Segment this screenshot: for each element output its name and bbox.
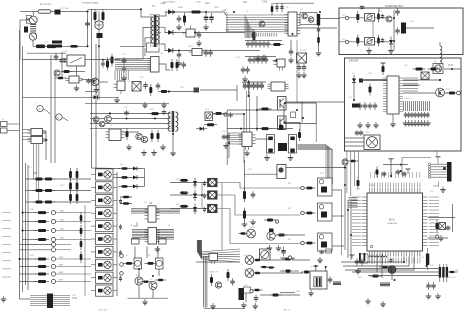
wire into PC2 (339, 41, 365, 43)
capacitor C38 (241, 66, 246, 74)
ground (373, 122, 379, 128)
connector pin (301, 211, 304, 214)
capacitor C86 (203, 207, 206, 213)
label LED4 (250, 227, 256, 229)
sensor U12 (209, 254, 218, 265)
power tap (377, 8, 382, 12)
svg-text:KEY: KEY (59, 280, 64, 282)
wire U13 to U14 b (249, 91, 251, 132)
capacitor C79 (426, 282, 431, 290)
label U4 (160, 53, 163, 55)
label KEY3 (59, 280, 64, 282)
label Q8 (136, 275, 140, 277)
label C10 (205, 2, 210, 5)
wire (43, 131, 47, 133)
junction (350, 234, 352, 236)
wire into U1 (23, 59, 63, 61)
ground (357, 122, 363, 128)
choke L1b (44, 45, 59, 49)
wire SDA (428, 217, 455, 219)
ground (114, 97, 120, 103)
wire PC2 out (375, 41, 390, 43)
wire (292, 259, 310, 261)
label OUT2 (446, 89, 452, 91)
U16 top pin labels outer (371, 172, 420, 178)
wire (315, 266, 317, 271)
resistor R20b (377, 35, 380, 47)
wire row (20, 281, 38, 283)
ribbon bus into U8 right (156, 209, 180, 214)
wire feed down (243, 114, 245, 163)
label U10 (368, 73, 373, 75)
wire row (120, 196, 131, 198)
junction (98, 45, 100, 47)
capacitor C34 (264, 56, 269, 64)
ground (223, 143, 229, 149)
ground (403, 120, 409, 126)
wire vertical inside box1 (393, 10, 395, 50)
connector pin P7 (51, 257, 55, 261)
resistor R1 (68, 45, 81, 48)
resistor R65 (304, 187, 316, 190)
resistor R77 (260, 266, 268, 268)
svg-text:KEY: KEY (59, 257, 64, 259)
resistor R62 (259, 108, 272, 111)
wire bus U5 (226, 19, 288, 21)
capacitor C27 (258, 40, 263, 48)
junction (87, 45, 89, 47)
motor M1 (29, 33, 36, 40)
ground (210, 303, 216, 309)
wire out Q11 (286, 101, 345, 103)
wire (439, 64, 441, 72)
wire (376, 254, 378, 272)
ground (316, 50, 322, 56)
wire module down (315, 124, 317, 143)
wire (280, 270, 284, 272)
resistor R88 (447, 271, 458, 273)
diode D9 (193, 178, 197, 189)
connector pin (301, 186, 304, 189)
resistor R45 (35, 265, 49, 268)
resistor R42 (35, 229, 49, 232)
capacitor CX2 (85, 20, 90, 28)
wire row out (56, 266, 91, 268)
resistor R95 (126, 128, 129, 140)
resistor R54 (180, 191, 189, 194)
label KEY2 (59, 272, 64, 274)
label LED6 (244, 269, 250, 271)
resistor R59 (155, 279, 166, 281)
label KEY1 (59, 265, 64, 267)
diode D2 (165, 30, 177, 35)
capacitor C5 (101, 60, 105, 68)
relay K2 (156, 258, 164, 269)
transistor Q21 (93, 117, 99, 123)
wire bus sig2 (96, 44, 120, 177)
svg-text:REMOTE: REMOTE (210, 272, 219, 274)
ground (365, 122, 371, 128)
svg-text:C10: C10 (205, 2, 210, 5)
capacitor C90 (86, 78, 91, 84)
label D201 (163, 2, 176, 4)
wire (325, 267, 327, 271)
capacitor C1 bulk (97, 33, 103, 38)
wire row (170, 208, 208, 210)
resistor R38 (42, 201, 55, 204)
capacitor C91 (91, 78, 96, 84)
junction (194, 31, 196, 33)
capacitor C40c (381, 38, 384, 44)
svg-text:DRIVER: DRIVER (349, 60, 359, 63)
ground (151, 150, 157, 156)
junction (154, 118, 156, 120)
svg-text:F1 3.15A: F1 3.15A (60, 7, 69, 10)
wire sec3 (161, 44, 167, 51)
driver cell Q33 (91, 208, 117, 219)
capacitor C57 (230, 278, 235, 286)
wire bus drop (249, 25, 251, 38)
label PC4 (205, 109, 210, 111)
ground (170, 150, 176, 156)
wire T2 in low (90, 123, 171, 125)
junction (109, 113, 111, 115)
resistor R68 (243, 188, 246, 202)
component hatch (244, 83, 263, 89)
U16 right pin labels (429, 197, 439, 246)
diode D4 (389, 37, 393, 48)
junction (248, 81, 250, 83)
capacitor C39 (245, 66, 250, 74)
wire link (301, 102, 303, 123)
wire row (23, 230, 38, 232)
resistor network RN2 (380, 283, 390, 286)
label AC input (40, 3, 52, 6)
wire lamp out (217, 195, 300, 215)
connector pin (250, 290, 253, 293)
label CN4 (410, 21, 415, 23)
junction (347, 209, 349, 211)
op-amp U14 (239, 132, 256, 150)
transformer T1 (149, 15, 161, 48)
junction (344, 184, 346, 186)
capacitor C45 (368, 102, 373, 110)
ground (425, 120, 431, 126)
wire vcc jog (402, 158, 431, 175)
svg-text:KEY: KEY (28, 167, 33, 169)
resistor R4 (106, 58, 109, 71)
label out (448, 65, 453, 67)
junction (315, 265, 317, 267)
wire lamp bus (221, 183, 223, 251)
label P1 (246, 11, 249, 13)
connector pin P12 (120, 263, 124, 267)
capacitor CC4 (119, 224, 122, 230)
wire row out (56, 212, 91, 214)
lamp LED2 (208, 191, 218, 199)
wire (43, 139, 49, 141)
resistor R97 (157, 130, 160, 142)
cable fan (198, 249, 240, 262)
wire bus drop (245, 17, 247, 38)
wire (134, 247, 136, 259)
wire (174, 31, 186, 33)
resistor R41 (35, 220, 49, 223)
wire (343, 257, 409, 267)
wire (200, 89, 237, 91)
ground (426, 293, 432, 299)
label TP (455, 270, 460, 272)
label TP (446, 277, 449, 279)
resistor R34 (33, 201, 46, 204)
lamp LED1 (208, 178, 218, 186)
junction (178, 50, 180, 52)
resistor R71b (76, 180, 79, 193)
wire bus U5 (226, 28, 288, 30)
ground (161, 102, 167, 108)
ground (264, 155, 270, 161)
ground (244, 150, 250, 156)
resistor R21 (382, 63, 385, 75)
resistor R33 (33, 189, 46, 192)
ground (317, 257, 323, 263)
label C210 (196, 2, 202, 4)
lamp LED3 (208, 204, 218, 212)
transistor Q13 (280, 99, 281, 101)
driver cell Q32 (91, 195, 117, 206)
wire to relay box 2 (297, 27, 337, 29)
capacitor C24 (246, 40, 251, 48)
driver cell Q36 (91, 246, 117, 257)
op-amp U9B (28, 137, 47, 144)
wire PC4 out (213, 113, 245, 115)
lamp LED6 (245, 269, 254, 278)
transistor cell Q6 (433, 64, 443, 74)
choke gap (52, 43, 62, 45)
wire (140, 8, 142, 10)
ground (196, 40, 202, 46)
connector CN11 (244, 287, 251, 293)
label C2x (252, 38, 256, 40)
wire U10 to Q7 (403, 92, 436, 94)
ground (288, 155, 294, 161)
relay K3 (267, 135, 275, 154)
ribbon bus into U8 left (131, 209, 148, 214)
capacitor C58 (243, 82, 248, 90)
ribbon hatch (349, 198, 358, 208)
cable bundle (197, 240, 201, 259)
wire bus x51 (50, 55, 52, 163)
wire bus drop (246, 20, 248, 38)
oscillator Y2 (278, 143, 287, 151)
resistor R49 (119, 176, 131, 179)
label J2 (2, 119, 5, 121)
U16 top pin labels (369, 183, 420, 188)
resistor R46 (35, 273, 49, 276)
transistor pair frame (300, 13, 317, 25)
svg-text:POWER BOARD: POWER BOARD (82, 2, 99, 5)
resistor R47 (35, 280, 49, 283)
label K1 (126, 255, 129, 257)
svg-text:C: C (58, 115, 60, 119)
wire lamp out (217, 183, 300, 189)
label F1 3.15A (60, 7, 69, 10)
capacitor C31 (252, 56, 257, 64)
opto-coupler PC2 (365, 38, 375, 46)
wire vertical node (87, 13, 89, 46)
note label A (37, 105, 50, 114)
label VDD (370, 185, 375, 187)
resistor R63 (259, 127, 272, 130)
wire row (120, 203, 131, 205)
resistor R19 (356, 11, 359, 23)
label gnd (98, 310, 108, 312)
svg-text:IC5: IC5 (243, 0, 248, 4)
capacitor C52 (413, 112, 416, 118)
ground (141, 150, 147, 156)
wire (262, 259, 285, 261)
wire drive 2 (227, 128, 293, 130)
wire (139, 168, 145, 170)
transistor Q1 (259, 21, 265, 27)
capacitor C67 (328, 276, 333, 284)
resistor R72a (69, 191, 72, 204)
ground (242, 76, 248, 82)
capacitor C21 (275, 5, 278, 10)
U16 top pins (369, 188, 420, 193)
wire (139, 185, 145, 187)
junction (22, 230, 24, 232)
regulator U19 (274, 59, 286, 71)
wire bridge bottom (98, 29, 100, 34)
junction (426, 265, 428, 267)
crystal X2 (421, 72, 429, 79)
resistor R16 (317, 34, 320, 46)
label power board (82, 2, 99, 5)
label SW4 (60, 238, 64, 240)
connector CN2a (317, 14, 320, 26)
wire (70, 71, 85, 73)
wire bus drop (248, 22, 250, 38)
label R215 (178, 7, 184, 9)
label CN3 (236, 57, 241, 59)
connector CN5 (30, 294, 78, 309)
wire N rail (62, 45, 88, 47)
label DRV (320, 173, 325, 175)
wire bus U5 (226, 21, 288, 23)
wire aux rail (85, 102, 169, 104)
label R23 (404, 65, 409, 67)
resistor R84 (376, 167, 379, 178)
capacitor C15 (177, 51, 182, 59)
resistor R97d (80, 251, 83, 263)
capacitor C44 (363, 102, 368, 110)
diode D15 (196, 127, 207, 131)
wire (403, 79, 440, 81)
transistor Q23 (136, 133, 142, 139)
label C43 (348, 97, 353, 99)
wire row (23, 212, 38, 214)
connector CN1 (26, 15, 31, 23)
resistor R94 (204, 123, 217, 126)
connector pin (436, 235, 439, 238)
label C76 (430, 265, 435, 267)
wire bus drop (252, 32, 254, 38)
lamp LED5 (245, 256, 254, 265)
opto-coupler PC5 (66, 76, 83, 83)
driver cell Q37 (91, 259, 117, 270)
resistor R5 (111, 54, 114, 67)
label U5 (286, 7, 289, 9)
capacitor C68 (319, 250, 324, 255)
resistor array RN3 (352, 104, 360, 108)
wire bus U5 (226, 31, 288, 33)
label D6 (120, 164, 123, 166)
resistor R14 (271, 3, 274, 15)
driver cell Q30 (91, 169, 117, 180)
lamp LED4 (247, 229, 256, 238)
junction (22, 212, 24, 214)
capacitor CY1 (94, 9, 97, 23)
capacitor C95 (124, 110, 129, 116)
transistor Q24 (141, 136, 147, 142)
capacitor C20 (122, 65, 127, 73)
label U7 (110, 125, 113, 127)
bridge BD2 (132, 82, 141, 92)
wire bus U5 (226, 26, 288, 28)
transistor Q11 (278, 97, 287, 111)
capacitor C101 (389, 258, 392, 263)
label PC1 (342, 15, 347, 17)
label P10 (430, 191, 434, 193)
resistor R3 (61, 70, 73, 73)
svg-text:MCU: MCU (389, 218, 395, 222)
wire (99, 96, 119, 98)
capacitor C55 (423, 112, 426, 118)
diode D5 (352, 75, 356, 86)
wire (138, 285, 140, 298)
common-mode choke L2 (52, 41, 62, 48)
label T1 (152, 4, 156, 8)
wire SCL (428, 237, 448, 239)
diode D3 (165, 48, 177, 53)
wire row (20, 266, 38, 268)
ground (74, 85, 80, 91)
wire ribbon drop (121, 71, 123, 80)
ribbon bend (324, 145, 333, 185)
capacitor C54 (420, 112, 423, 118)
wire sec2 (161, 27, 167, 32)
label U12 (208, 262, 213, 264)
capacitor CX1 (24, 27, 28, 33)
wire top rail (383, 164, 408, 166)
svg-text:AC IN 220V: AC IN 220V (40, 3, 52, 6)
wire stage in (244, 173, 277, 175)
capacitor C42 (395, 27, 400, 35)
resistor R64 (298, 129, 301, 141)
label IN1 (288, 183, 292, 185)
connector CN13 (428, 162, 451, 182)
driver cell Q16 (318, 233, 333, 251)
wire ribbon drop (114, 71, 116, 80)
junction (302, 117, 304, 119)
junction (296, 109, 298, 111)
resistor R20 (356, 35, 359, 47)
label R53 (176, 179, 181, 181)
connector pin P13 (120, 272, 124, 276)
resistor R17 (271, 43, 284, 46)
connector pin P6 (51, 248, 55, 252)
